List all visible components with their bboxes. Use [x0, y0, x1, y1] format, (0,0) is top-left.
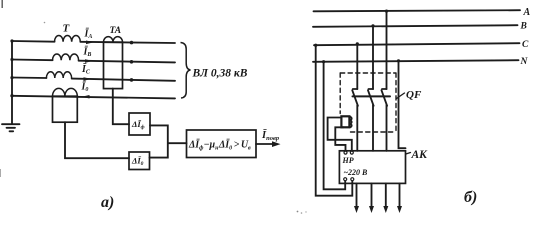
svg-text:ΔĪф: ΔĪф	[131, 119, 145, 131]
svg-text:ΔĪф−μнΔĪ0>Uв: ΔĪф−μнΔĪ0>Uв	[188, 139, 251, 152]
svg-text:ĪС: ĪС	[81, 63, 91, 76]
svg-text:В: В	[520, 22, 527, 32]
svg-text:А: А	[523, 7, 531, 18]
svg-text:б): б)	[464, 189, 477, 206]
svg-text:ВЛ 0,38 кВ: ВЛ 0,38 кВ	[192, 68, 248, 80]
svg-text:НР: НР	[342, 156, 354, 165]
svg-text:QF: QF	[406, 89, 422, 101]
svg-text:~220 В: ~220 В	[344, 168, 369, 177]
svg-text:T: T	[63, 23, 71, 35]
svg-text:ТА: ТА	[110, 26, 122, 36]
svg-text:Īповр: Īповр	[261, 129, 280, 142]
svg-text:а): а)	[101, 194, 114, 211]
svg-text:АК: АК	[411, 149, 429, 161]
svg-text:ĪА: ĪА	[84, 28, 93, 41]
svg-text:ĪВ: ĪВ	[83, 45, 92, 58]
svg-text:Ī0: Ī0	[81, 81, 89, 94]
svg-text:ΔĪ0: ΔĪ0	[131, 156, 144, 168]
svg-text:N: N	[520, 57, 529, 67]
svg-text:С: С	[522, 40, 529, 50]
